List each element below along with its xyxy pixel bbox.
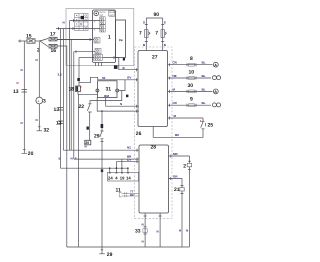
svg-text:N: N <box>179 229 181 233</box>
ground 20 <box>22 147 28 154</box>
svg-text:7: 7 <box>155 31 158 37</box>
relay 31 box <box>98 81 118 98</box>
svg-text:BL: BL <box>202 61 206 65</box>
wire: switch drop x39 <box>38 42 40 97</box>
wire left drop from 90 <box>143 18 148 51</box>
svg-text:32: 32 <box>44 128 50 134</box>
switch 25 <box>200 118 205 131</box>
svg-text:13: 13 <box>13 89 19 95</box>
wires box28 bottom <box>142 213 147 247</box>
wire box28 bottom right <box>157 213 162 247</box>
wire: fuse 15 to switch 2 <box>35 40 40 42</box>
narrow box right part <box>116 20 126 58</box>
pin mark narrow box <box>123 58 125 61</box>
wire pin row2 left <box>56 27 100 168</box>
svg-text:25: 25 <box>208 123 214 129</box>
small box MAR AVV <box>109 11 115 17</box>
svg-text:N: N <box>120 102 122 106</box>
wire A relay pin to fusebox <box>106 98 139 108</box>
rail 1 from fusebox <box>168 56 213 66</box>
svg-text:13: 13 <box>56 121 62 127</box>
switch 2 <box>39 39 48 47</box>
svg-text:N: N <box>63 21 65 25</box>
labels around relay <box>104 94 109 98</box>
connector 2 <box>183 156 191 247</box>
connector 11 <box>116 187 139 197</box>
wire BR to box28 <box>74 154 139 160</box>
svg-text:2: 2 <box>183 163 186 169</box>
svg-text:22: 22 <box>79 104 85 110</box>
body unit 28 <box>139 145 169 213</box>
svg-text:29: 29 <box>107 252 113 258</box>
node circle rail1 <box>213 62 218 67</box>
svg-text:BL: BL <box>202 87 206 91</box>
rail 4 <box>168 97 212 107</box>
svg-text:N: N <box>157 230 159 234</box>
dashed box 26 <box>135 47 173 219</box>
wire: x79 drop from unit1 <box>78 58 80 86</box>
node circles rail4 <box>212 103 220 107</box>
wire right drop from 90 <box>161 18 166 51</box>
svg-text:N: N <box>71 157 73 161</box>
pin strip box <box>108 172 139 181</box>
pin block row1 <box>100 17 105 24</box>
wire switch25 return to fusebox bottom <box>153 127 203 138</box>
svg-text:E: E <box>59 157 61 161</box>
svg-text:BM: BM <box>104 94 109 98</box>
node 90 bracket <box>146 12 162 18</box>
wire CY to box28 <box>116 158 138 168</box>
connector 18 <box>76 86 82 92</box>
splice bus <box>61 159 129 172</box>
splice square <box>114 65 118 69</box>
rail 2 <box>168 70 212 80</box>
ref box 20 <box>85 140 91 145</box>
svg-text:N: N <box>142 223 144 227</box>
junction conn17 wire <box>57 38 94 150</box>
fuse 7 right <box>161 30 166 38</box>
wire label on switch 22 drop <box>87 127 89 130</box>
ticks below fuses <box>143 42 167 48</box>
connector 33 <box>135 227 147 244</box>
pin block bottom <box>94 55 103 61</box>
label Z <box>101 124 104 128</box>
rail 3 <box>168 83 213 93</box>
svg-text:HE: HE <box>173 74 177 78</box>
svg-text:AVV: AVV <box>109 14 114 17</box>
svg-text:2.5: 2.5 <box>58 73 63 77</box>
fuse 15 <box>27 39 35 43</box>
text INT/A INT <box>100 11 107 17</box>
svg-text:DF: DF <box>130 193 134 197</box>
svg-text:18: 18 <box>69 87 75 93</box>
svg-text:S: S <box>143 21 145 25</box>
svg-text:S: S <box>164 21 166 25</box>
svg-text:8: 8 <box>190 56 193 62</box>
wire B relay pin to fusebox with tee <box>97 98 139 113</box>
wire pin row4 <box>74 50 95 159</box>
wire conn18 to relay 31 lower left <box>78 92 98 95</box>
wire conn18 chain down to splice bus and rail <box>78 94 80 247</box>
stubs below unit1 <box>96 63 102 67</box>
wire relay right to fusebox <box>119 80 125 91</box>
svg-text:21: 21 <box>174 187 180 193</box>
wire: left drop x24 <box>23 41 25 147</box>
connector 17 <box>49 37 57 41</box>
wire: connector 16 right then down at x66.8 <box>57 46 67 247</box>
pin block row2 <box>100 25 105 32</box>
svg-text:INT: INT <box>100 14 104 17</box>
svg-text:19: 19 <box>120 175 125 180</box>
ground 29 <box>99 247 105 254</box>
svg-text:N: N <box>85 145 87 149</box>
svg-text:20: 20 <box>28 151 34 157</box>
wire NZ to box28 <box>63 146 138 152</box>
navy labels on right verticals <box>179 229 188 233</box>
svg-text:24: 24 <box>108 175 113 180</box>
svg-text:27: 27 <box>152 55 158 61</box>
inline connector 13 ticks on bundle <box>54 107 64 113</box>
pin block row4 <box>95 49 101 54</box>
svg-text:BL: BL <box>202 74 206 78</box>
svg-text:15: 15 <box>26 34 32 40</box>
svg-text:GV: GV <box>127 76 131 80</box>
svg-text:N: N <box>186 229 188 233</box>
tee to switch 29 <box>101 110 103 112</box>
svg-text:N: N <box>21 121 23 125</box>
wire: connector 17 right with junction <box>57 39 93 41</box>
svg-text:3: 3 <box>43 98 46 104</box>
wire GR box28 to connector 21 <box>169 174 183 180</box>
wire BN into fusebox <box>98 78 138 81</box>
svg-text:BL: BL <box>202 101 206 105</box>
terminal right <box>116 89 119 92</box>
ignition unit 1 box <box>93 10 116 63</box>
svg-text:10: 10 <box>189 70 195 76</box>
svg-text:9: 9 <box>190 97 193 103</box>
svg-text:14: 14 <box>126 175 131 180</box>
wire pin bottom left from x79 <box>79 57 94 59</box>
svg-text:17: 17 <box>50 32 56 38</box>
box ignition assembly <box>66 9 134 66</box>
svg-text:26: 26 <box>136 131 142 137</box>
svg-text:31: 31 <box>106 87 112 93</box>
svg-text:1: 1 <box>108 35 111 41</box>
ground 32 <box>37 124 43 131</box>
svg-text:N: N <box>21 68 23 72</box>
inline connector 13 on x24 <box>22 90 28 93</box>
node circles rail2 <box>212 76 220 80</box>
connector 21 <box>174 179 184 248</box>
navy marks bundle bottom <box>59 145 87 161</box>
ground rail bottom <box>67 246 190 248</box>
svg-text:E: E <box>75 157 77 161</box>
svg-text:13: 13 <box>54 107 60 113</box>
wire jog over relay to fusebox BN <box>79 77 98 82</box>
svg-text:A: A <box>214 63 217 67</box>
wire: unit1 to fusebox ignition feed <box>103 56 139 71</box>
navy label on x79 <box>77 78 80 81</box>
svg-text:7: 7 <box>139 31 142 37</box>
rail 5 to switch 25 <box>168 114 204 120</box>
svg-text:90: 90 <box>154 12 160 18</box>
node circle rail3 <box>213 89 218 94</box>
fuse 7 left <box>145 30 150 38</box>
wire MR box28 to connector 2 <box>169 152 190 158</box>
svg-text:NZ: NZ <box>127 146 131 150</box>
svg-text:CY: CY <box>127 158 131 162</box>
connector 16 <box>49 44 57 48</box>
svg-text:50: 50 <box>102 76 106 80</box>
svg-text:N: N <box>142 240 144 244</box>
svg-text:28: 28 <box>151 144 157 150</box>
terminal left <box>96 89 99 92</box>
svg-text:29: 29 <box>94 133 100 139</box>
svg-text:33: 33 <box>135 229 141 235</box>
fusebox 27 <box>138 51 168 127</box>
switch 29 <box>100 131 104 247</box>
svg-text:N: N <box>36 58 38 62</box>
key position table <box>75 14 89 31</box>
wire pin row1 left <box>63 19 99 150</box>
svg-text:A: A <box>214 90 217 94</box>
wire relay right terminal down to switch 22 <box>90 91 122 104</box>
switch 22 dangling <box>87 104 91 141</box>
svg-text:N: N <box>36 118 38 122</box>
horn 3 <box>36 97 43 124</box>
svg-text:30: 30 <box>188 83 194 89</box>
pin block row3 <box>94 38 100 43</box>
key symbol <box>94 11 99 16</box>
wire: feed stub to fuse 15 <box>18 40 27 43</box>
svg-text:16: 16 <box>51 48 57 54</box>
